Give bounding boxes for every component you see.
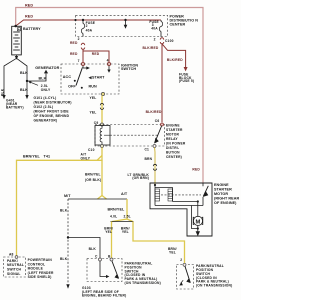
svg-text:BATTERY): BATTERY) bbox=[6, 105, 24, 109]
svg-text:B: B bbox=[108, 254, 111, 258]
svg-text:ONLY: ONLY bbox=[41, 88, 51, 92]
svg-text:CENTER): CENTER) bbox=[166, 155, 182, 159]
svg-text:ACC: ACC bbox=[63, 75, 72, 79]
svg-text:YEL: YEL bbox=[90, 111, 97, 115]
svg-text:(OR BLK): (OR BLK) bbox=[85, 178, 101, 182]
svg-text:2: 2 bbox=[86, 24, 88, 28]
svg-text:BLK: BLK bbox=[20, 71, 28, 75]
svg-text:BLK: BLK bbox=[60, 209, 68, 213]
svg-text:SIGNAL: SIGNAL bbox=[7, 272, 21, 276]
svg-text:4: 4 bbox=[107, 58, 109, 62]
svg-text:BUTION: BUTION bbox=[166, 151, 180, 155]
svg-text:C10: C10 bbox=[88, 148, 95, 152]
svg-text:BLK/RED: BLK/RED bbox=[143, 46, 159, 50]
svg-text:C1: C1 bbox=[145, 148, 150, 152]
svg-text:RED: RED bbox=[25, 3, 33, 7]
svg-text:BRN/YEL: BRN/YEL bbox=[23, 155, 41, 159]
svg-text:C100: C100 bbox=[165, 39, 174, 43]
svg-text:GENERATOR): GENERATOR) bbox=[34, 118, 58, 122]
svg-text:A/T: A/T bbox=[121, 192, 128, 196]
svg-text:BLK: BLK bbox=[20, 88, 28, 92]
svg-text:BLK/RED: BLK/RED bbox=[146, 110, 162, 114]
svg-text:C6: C6 bbox=[155, 119, 160, 123]
svg-text:OFF: OFF bbox=[68, 85, 76, 89]
svg-text:(RIGHT REAR: (RIGHT REAR bbox=[214, 197, 240, 201]
svg-text:40A: 40A bbox=[86, 29, 93, 33]
svg-text:(ON TRANSMISSION): (ON TRANSMISSION) bbox=[125, 281, 161, 285]
svg-text:BRN: BRN bbox=[145, 157, 153, 161]
svg-text:2: 2 bbox=[154, 37, 156, 41]
svg-text:RED: RED bbox=[192, 167, 200, 171]
svg-text:RELAY: RELAY bbox=[166, 137, 178, 141]
svg-text:MOTOR: MOTOR bbox=[214, 192, 228, 196]
svg-text:BLK: BLK bbox=[60, 257, 68, 261]
svg-text:BLK: BLK bbox=[0, 88, 4, 96]
svg-text:RED: RED bbox=[70, 52, 78, 56]
svg-text:BLK: BLK bbox=[89, 247, 97, 251]
svg-text:YEL: YEL bbox=[105, 230, 112, 234]
svg-text:YEL: YEL bbox=[122, 230, 129, 234]
svg-text:DISTRI-: DISTRI- bbox=[166, 146, 179, 150]
svg-text:(FUSE 5): (FUSE 5) bbox=[179, 79, 194, 83]
svg-text:BATTERY: BATTERY bbox=[23, 27, 41, 31]
svg-text:(IN POWER: (IN POWER bbox=[166, 142, 186, 146]
svg-text:40A: 40A bbox=[151, 27, 158, 31]
svg-text:G101 (4-CYL): G101 (4-CYL) bbox=[34, 96, 57, 100]
svg-text:RED: RED bbox=[25, 15, 33, 19]
svg-text:OF ENGINE): OF ENGINE) bbox=[214, 201, 237, 205]
svg-text:(RIGHT FRONT SIDE: (RIGHT FRONT SIDE bbox=[34, 109, 70, 113]
svg-text:2: 2 bbox=[180, 258, 182, 262]
svg-text:7: 7 bbox=[78, 59, 80, 63]
svg-text:SIDE SHIELD): SIDE SHIELD) bbox=[28, 275, 52, 279]
svg-text:START: START bbox=[92, 76, 105, 80]
svg-text:2.5L: 2.5L bbox=[124, 215, 131, 219]
svg-text:C: C bbox=[95, 254, 98, 258]
svg-text:BRN/YEL: BRN/YEL bbox=[85, 173, 101, 177]
svg-text:2: 2 bbox=[78, 37, 80, 41]
svg-text:GENERATOR: GENERATOR bbox=[35, 66, 59, 70]
svg-text:A8: A8 bbox=[9, 253, 14, 257]
svg-text:ENGINE: ENGINE bbox=[166, 124, 180, 128]
svg-text:ENGINE, BEHIND FILTER): ENGINE, BEHIND FILTER) bbox=[82, 293, 126, 297]
svg-text:BLK/RED: BLK/RED bbox=[167, 58, 183, 62]
svg-text:T41: T41 bbox=[44, 155, 51, 159]
svg-text:OF ENGINE, BEHIND: OF ENGINE, BEHIND bbox=[34, 114, 70, 118]
svg-text:MOTOR: MOTOR bbox=[166, 133, 180, 137]
svg-text:M: M bbox=[196, 219, 201, 225]
svg-text:RED: RED bbox=[92, 52, 100, 56]
svg-text:BLK: BLK bbox=[39, 77, 47, 81]
svg-text:M/T: M/T bbox=[64, 194, 71, 198]
svg-text:YEL: YEL bbox=[169, 251, 176, 255]
svg-text:+: + bbox=[18, 28, 20, 32]
svg-text:YEL: YEL bbox=[90, 96, 97, 100]
svg-text:STARTER: STARTER bbox=[214, 188, 232, 192]
svg-text:BRN/YEL: BRN/YEL bbox=[108, 208, 126, 212]
svg-text:(ON TRANSMISSION): (ON TRANSMISSION) bbox=[196, 284, 232, 288]
svg-text:ENGINE: ENGINE bbox=[214, 183, 229, 187]
svg-text:4.0L: 4.0L bbox=[110, 215, 117, 219]
svg-text:RUN: RUN bbox=[89, 85, 98, 89]
svg-text:(OR BRN): (OR BRN) bbox=[132, 176, 149, 180]
svg-text:SWITCH: SWITCH bbox=[121, 67, 136, 71]
svg-text:CENTER: CENTER bbox=[170, 23, 186, 27]
svg-text:ONLY: ONLY bbox=[81, 156, 91, 160]
svg-text:RED: RED bbox=[70, 41, 78, 45]
svg-text:STARTER: STARTER bbox=[166, 128, 183, 132]
svg-text:(NEAR DISTRIBUTOR): (NEAR DISTRIBUTOR) bbox=[34, 100, 72, 104]
svg-text:G102 (2.5L): G102 (2.5L) bbox=[34, 105, 54, 109]
